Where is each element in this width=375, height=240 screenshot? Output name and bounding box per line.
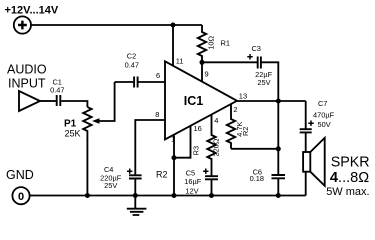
wire pin 11 [172, 25, 174, 66]
svg-text:6: 6 [156, 71, 160, 80]
svg-text:INPUT: INPUT [8, 76, 46, 90]
svg-text:GND: GND [6, 168, 34, 182]
svg-text:R2: R2 [156, 170, 168, 180]
input triangle symbol [19, 91, 40, 111]
svg-text:10Ω: 10Ω [206, 35, 215, 49]
wire R1 to C3 [202, 61, 257, 63]
wire C1 to P1 [61, 101, 87, 107]
node C6 rail [276, 193, 281, 198]
wire bottom rail [29, 195, 306, 197]
P1 wiper arrow [98, 82, 115, 121]
wire C5 to rail [211, 180, 213, 196]
node R1 bottom [200, 60, 205, 65]
wire R2 to C6 column [231, 148, 278, 150]
svg-text:25K: 25K [65, 129, 81, 139]
svg-text:5W max.: 5W max. [326, 186, 369, 198]
svg-text:1: 1 [171, 135, 175, 144]
wire pin 9 [201, 62, 203, 81]
node top rail / pin 11 junction [171, 23, 176, 28]
capacitor C5 [205, 176, 218, 179]
wire C7 to speaker [305, 133, 307, 152]
capacitor C7 [300, 129, 312, 132]
wire junction to rail [173, 158, 175, 196]
svg-text:0.47: 0.47 [50, 86, 64, 95]
wire speaker to rail [305, 172, 307, 196]
svg-text:4: 4 [214, 116, 218, 125]
svg-text:R3: R3 [191, 146, 200, 155]
svg-text:220Ω: 220Ω [211, 138, 220, 156]
svg-text:R2: R2 [241, 127, 250, 136]
svg-text:16µF: 16µF [184, 177, 201, 186]
wire output to C7 [305, 101, 307, 129]
svg-text:AUDIO: AUDIO [7, 63, 47, 77]
ground terminal [12, 187, 29, 204]
wire top rail [31, 24, 202, 26]
svg-text:11: 11 [176, 57, 184, 66]
C3 plus sign [247, 54, 252, 59]
node R2/C6 junction [276, 146, 281, 151]
resistor R1 [198, 25, 206, 62]
svg-text:C3: C3 [251, 44, 260, 53]
capacitor C6 [272, 175, 286, 178]
svg-text:8: 8 [155, 110, 159, 119]
svg-text:50V: 50V [318, 120, 331, 129]
C4 plus sign [127, 169, 132, 174]
capacitor C2 [134, 77, 138, 88]
svg-text:IC1: IC1 [184, 94, 204, 108]
svg-text:25V: 25V [257, 78, 270, 87]
supply terminal +12V [14, 16, 31, 33]
wire C6 to rail [277, 179, 279, 196]
wire pin 1 [173, 135, 175, 158]
wire output node to C6 [277, 101, 279, 174]
svg-text:2: 2 [233, 105, 237, 114]
node C4 rail [133, 193, 138, 198]
wire C4 to rail [134, 179, 136, 195]
wire C3 to output node [262, 62, 279, 101]
ground [127, 196, 147, 216]
svg-text:470µF: 470µF [313, 111, 335, 120]
svg-text:0: 0 [18, 191, 24, 203]
capacitor C3 [258, 57, 261, 69]
resistor R2 [227, 104, 235, 149]
node C5 rail [209, 193, 214, 198]
svg-text:+12V...14V: +12V...14V [5, 5, 59, 17]
svg-text:9: 9 [205, 70, 209, 79]
wire pin 16 link [174, 126, 191, 158]
resistor R3 [207, 115, 215, 176]
node pin1/pin16 junction [172, 155, 177, 160]
svg-text:R1: R1 [221, 39, 231, 48]
svg-text:13: 13 [239, 92, 247, 101]
svg-text:C5: C5 [186, 168, 195, 177]
wire wiper to C2 [115, 81, 134, 83]
svg-text:12V: 12V [185, 187, 198, 196]
node output junction [276, 99, 281, 104]
wire input to C1 [40, 100, 56, 102]
speaker SPKR [303, 152, 310, 172]
svg-text:16: 16 [194, 124, 202, 133]
op-amp IC1 [165, 61, 237, 139]
svg-text:25V: 25V [104, 181, 117, 190]
wire C2 to pin 6 [138, 81, 165, 83]
C5 plus sign [203, 169, 208, 174]
wire pin 8 to C4 column [135, 120, 165, 175]
node P1 rail [85, 193, 90, 198]
svg-text:C7: C7 [318, 99, 327, 108]
svg-text:4...8Ω: 4...8Ω [330, 170, 369, 186]
svg-text:0.47: 0.47 [125, 60, 139, 69]
wire output pin 13 [237, 100, 306, 102]
capacitor C4 [129, 175, 142, 178]
potentiometer P1 [83, 107, 91, 196]
svg-text:0.18: 0.18 [250, 174, 264, 183]
svg-text:SPKR: SPKR [331, 154, 370, 170]
node pin1 rail [172, 193, 177, 198]
C7 plus sign [308, 121, 313, 126]
capacitor C1 [57, 95, 61, 106]
svg-text:C2: C2 [127, 51, 136, 60]
